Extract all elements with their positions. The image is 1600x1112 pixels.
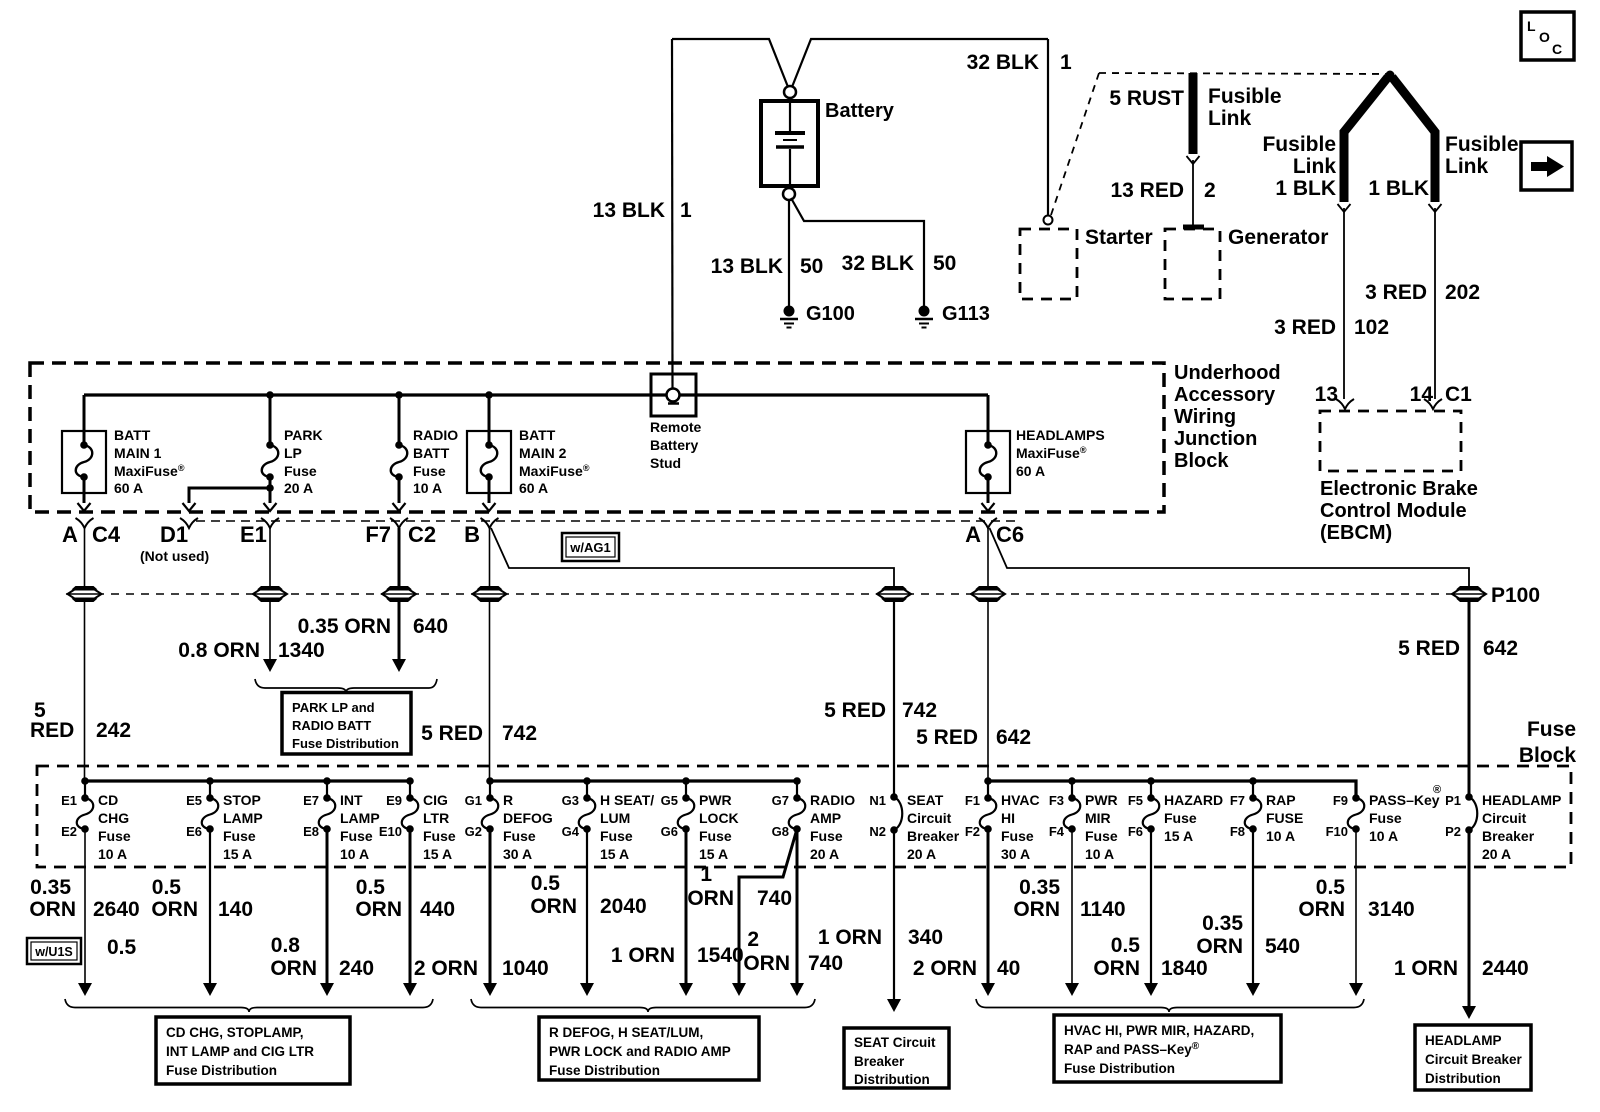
svg-text:5 RED: 5 RED — [824, 699, 886, 722]
svg-text:60 A: 60 A — [1016, 463, 1045, 479]
svg-text:MAIN 1: MAIN 1 — [114, 445, 162, 461]
wire 3 RED 102 — [1343, 208, 1345, 399]
svg-text:E9: E9 — [386, 793, 402, 808]
svg-text:RAP and PASS–Key®: RAP and PASS–Key® — [1064, 1041, 1200, 1057]
fuse PWR 15 A — [661, 781, 739, 862]
svg-text:0.5: 0.5 — [1111, 934, 1141, 957]
node bus 2 junction x=490 — [486, 777, 494, 785]
svg-text:Fuse: Fuse — [600, 828, 633, 844]
svg-text:CD CHG, STOPLAMP,: CD CHG, STOPLAMP, — [166, 1025, 304, 1040]
svg-text:20 A: 20 A — [1482, 846, 1511, 862]
node bus 1 junction x=327 — [323, 777, 331, 785]
EBCM box (dashed) — [1320, 411, 1461, 471]
svg-text:Fuse Distribution: Fuse Distribution — [549, 1063, 660, 1078]
svg-text:2: 2 — [747, 928, 759, 951]
svg-text:Link: Link — [1445, 155, 1488, 178]
svg-text:N1: N1 — [869, 793, 886, 808]
underhood accessory wiring junction block box (dashed) — [30, 363, 1164, 512]
fuse H SEAT/ 15 A — [562, 781, 655, 862]
node bus 3 junction x=1151 — [1147, 777, 1155, 785]
box PARK LP and RADIO BATT Fuse Distribution — [282, 693, 411, 755]
wire bus 1 (CD CHG..CIG LTR) — [85, 779, 410, 782]
fuse RADIO BATT 10A — [398, 395, 401, 445]
svg-text:CD: CD — [98, 792, 118, 808]
svg-text:60 A: 60 A — [519, 480, 548, 496]
svg-text:2 ORN: 2 ORN — [414, 957, 478, 980]
svg-text:0.5: 0.5 — [356, 876, 386, 899]
tag w/U1S — [27, 938, 81, 964]
svg-text:740: 740 — [757, 887, 792, 910]
grommet connector at x=399 — [386, 586, 412, 590]
svg-text:Circuit: Circuit — [1482, 810, 1527, 826]
svg-text:PASS–Key: PASS–Key — [1369, 792, 1440, 808]
box SEAT Circuit Breaker Distribution — [844, 1028, 949, 1088]
wire SEAT breaker output — [893, 830, 895, 1000]
svg-text:20 A: 20 A — [907, 846, 936, 862]
battery B1 — [761, 86, 818, 200]
svg-text:Breaker: Breaker — [854, 1054, 905, 1069]
svg-text:Fuse: Fuse — [98, 828, 131, 844]
svg-text:Fusible: Fusible — [1262, 133, 1336, 156]
svg-text:2640: 2640 — [93, 898, 140, 921]
fusible link 1 BLK right (to EBCM pin 14) — [1392, 77, 1435, 202]
ground G113 — [915, 306, 933, 328]
svg-text:5 RED: 5 RED — [916, 726, 978, 749]
svg-text:(EBCM): (EBCM) — [1320, 522, 1392, 544]
node junction PARK LP tap — [266, 391, 274, 399]
svg-text:1 BLK: 1 BLK — [1368, 177, 1429, 200]
wire B down (5 RED 742) — [489, 528, 491, 588]
wire fuse output x=1151 — [1150, 829, 1152, 985]
fuse CIG 15 A — [379, 781, 456, 862]
svg-text:HI: HI — [1001, 810, 1015, 826]
svg-text:E1: E1 — [240, 522, 267, 547]
node junction BATT MAIN 2 tap — [485, 391, 493, 399]
svg-text:740: 740 — [808, 952, 843, 975]
svg-text:ORN: ORN — [270, 957, 317, 980]
wire fuse output x=327 — [326, 829, 329, 985]
fuse HEADLAMPS MaxiFuse 60A — [987, 395, 990, 445]
svg-text:G7: G7 — [772, 793, 789, 808]
svg-text:F7: F7 — [365, 522, 391, 547]
svg-text:1: 1 — [1060, 51, 1072, 74]
svg-text:F9: F9 — [1333, 793, 1348, 808]
svg-text:C4: C4 — [92, 522, 121, 547]
svg-text:HEADLAMP: HEADLAMP — [1482, 792, 1561, 808]
wire E1 down (0.8 ORN 1340) — [269, 528, 271, 588]
svg-text:F5: F5 — [1128, 793, 1143, 808]
svg-text:PWR LOCK and RADIO AMP: PWR LOCK and RADIO AMP — [549, 1044, 731, 1059]
svg-text:E5: E5 — [186, 793, 202, 808]
svg-text:F10: F10 — [1326, 824, 1348, 839]
svg-text:Link: Link — [1208, 107, 1251, 130]
svg-text:E2: E2 — [61, 824, 77, 839]
svg-text:FUSE: FUSE — [1266, 810, 1303, 826]
svg-text:Fuse: Fuse — [340, 828, 373, 844]
svg-text:Fuse: Fuse — [423, 828, 456, 844]
svg-text:LAMP: LAMP — [340, 810, 380, 826]
fusible link 1 BLK left (to EBCM pin 13) — [1344, 77, 1388, 202]
svg-text:ORN: ORN — [29, 898, 76, 921]
connector B — [481, 518, 499, 528]
wire fuse output x=210 — [209, 829, 211, 985]
wire dashed rail to generator/EBCM feed — [1099, 73, 1390, 74]
svg-text:140: 140 — [218, 898, 253, 921]
svg-text:Starter: Starter — [1085, 226, 1153, 249]
grommet connector at x=84.5 — [72, 586, 98, 590]
svg-text:F7: F7 — [1230, 793, 1245, 808]
svg-text:Distribution: Distribution — [1425, 1071, 1501, 1086]
svg-text:MaxiFuse®: MaxiFuse® — [519, 463, 590, 479]
svg-text:RED: RED — [30, 719, 74, 742]
wire A/C6 branch to HEADLAMP circuit breaker — [990, 528, 1470, 588]
svg-text:1 ORN: 1 ORN — [818, 926, 882, 949]
svg-text:HEADLAMPS: HEADLAMPS — [1016, 427, 1105, 443]
svg-text:R: R — [503, 792, 513, 808]
svg-text:1840: 1840 — [1161, 957, 1208, 980]
svg-text:5 RED: 5 RED — [421, 722, 483, 745]
svg-text:30 A: 30 A — [503, 846, 532, 862]
svg-text:Breaker: Breaker — [1482, 828, 1535, 844]
svg-text:LAMP: LAMP — [223, 810, 263, 826]
svg-text:Fuse: Fuse — [1369, 810, 1402, 826]
svg-text:RAP: RAP — [1266, 792, 1296, 808]
wire 32 BLK 50 to G113 — [791, 198, 924, 306]
svg-text:E6: E6 — [186, 824, 202, 839]
svg-text:DEFOG: DEFOG — [503, 810, 553, 826]
wire A/C4 down (5 RED 242) — [84, 528, 86, 588]
svg-text:O: O — [1539, 29, 1550, 45]
svg-text:F6: F6 — [1128, 824, 1143, 839]
box HEADLAMP Circuit Breaker Distribution — [1415, 1025, 1531, 1090]
svg-text:32 BLK: 32 BLK — [842, 252, 914, 275]
svg-text:w/AG1: w/AG1 — [569, 540, 610, 555]
svg-text:MaxiFuse®: MaxiFuse® — [114, 463, 185, 479]
svg-text:G100: G100 — [806, 303, 855, 325]
wire PARK LP to D1 — [189, 488, 270, 503]
svg-text:B: B — [464, 522, 480, 547]
svg-text:Fuse: Fuse — [699, 828, 732, 844]
grommet connector at x=270 — [257, 586, 283, 590]
svg-text:3 RED: 3 RED — [1274, 316, 1336, 339]
svg-text:Accessory: Accessory — [1174, 384, 1276, 406]
svg-text:0.5: 0.5 — [1316, 876, 1346, 899]
svg-text:Underhood: Underhood — [1174, 362, 1281, 384]
connector F7/C2 — [390, 518, 408, 528]
wire top feed from battery positive — [672, 39, 1048, 87]
svg-text:10 A: 10 A — [1085, 846, 1114, 862]
svg-text:Fuse: Fuse — [223, 828, 256, 844]
svg-text:Battery: Battery — [650, 437, 698, 453]
svg-text:20 A: 20 A — [284, 480, 313, 496]
svg-text:E8: E8 — [303, 824, 319, 839]
svg-text:13 RED: 13 RED — [1110, 179, 1184, 202]
svg-text:RADIO BATT: RADIO BATT — [292, 718, 371, 733]
wire fuse output x=988 — [987, 829, 990, 985]
svg-text:(Not used): (Not used) — [140, 548, 209, 564]
svg-text:202: 202 — [1445, 281, 1480, 304]
svg-text:HVAC: HVAC — [1001, 792, 1040, 808]
svg-text:Link: Link — [1293, 155, 1336, 178]
connector E1 — [261, 518, 279, 528]
box R DEFOG H SEAT/LUM PWR LOCK RADIO AMP Fuse Distribution — [539, 1017, 759, 1080]
svg-text:LTR: LTR — [423, 810, 449, 826]
node junction at fusible link peak — [1386, 71, 1395, 80]
node junction RADIO BATT tap — [395, 391, 403, 399]
svg-text:Wiring: Wiring — [1174, 406, 1236, 428]
svg-text:BATT: BATT — [519, 427, 556, 443]
svg-text:P2: P2 — [1445, 824, 1461, 839]
svg-text:ORN: ORN — [743, 952, 790, 975]
node bus 1 junction x=410 — [406, 777, 414, 785]
svg-text:F1: F1 — [965, 793, 980, 808]
svg-text:G113: G113 — [942, 303, 990, 325]
svg-text:50: 50 — [933, 252, 956, 275]
connector D1 (not used) — [180, 518, 198, 528]
svg-text:ORN: ORN — [1093, 957, 1140, 980]
node bus 2 junction x=587 — [583, 777, 591, 785]
svg-text:3140: 3140 — [1368, 898, 1415, 921]
wire fuse output x=1356 — [1355, 829, 1357, 985]
svg-text:ORN: ORN — [530, 895, 577, 918]
svg-text:0.8 ORN: 0.8 ORN — [178, 639, 260, 662]
svg-text:10 A: 10 A — [1369, 828, 1398, 844]
wire fuse output x=686 — [685, 829, 688, 985]
wire bus 2 (R DEFOG..RADIO AMP) — [490, 779, 797, 782]
svg-text:0.5: 0.5 — [107, 936, 137, 959]
svg-text:Fuse Distribution: Fuse Distribution — [292, 736, 399, 751]
node bus 2 junction x=686 — [682, 777, 690, 785]
svg-text:Control Module: Control Module — [1320, 500, 1467, 522]
svg-text:INT LAMP and CIG LTR: INT LAMP and CIG LTR — [166, 1044, 314, 1059]
svg-text:BATT: BATT — [413, 445, 450, 461]
svg-text:A: A — [62, 522, 78, 547]
svg-text:E7: E7 — [303, 793, 319, 808]
wire RADIO AMP branch output (1 ORN 740) — [739, 829, 797, 985]
svg-text:0.35: 0.35 — [1019, 876, 1060, 899]
svg-text:Fuse: Fuse — [503, 828, 536, 844]
node bus 3 junction x=1072 — [1068, 777, 1076, 785]
svg-text:Fuse Distribution: Fuse Distribution — [1064, 1061, 1175, 1076]
wire 13 RED 2 to generator — [1187, 156, 1200, 164]
svg-text:2040: 2040 — [600, 895, 647, 918]
fuse PASS-Key 10 A — [1326, 781, 1442, 844]
fuse block box (dashed) — [37, 766, 1571, 867]
svg-text:Fuse: Fuse — [413, 463, 446, 479]
svg-text:540: 540 — [1265, 935, 1300, 958]
svg-text:1540: 1540 — [697, 944, 744, 967]
brace R DEFOG group — [471, 999, 815, 1012]
connector face dashed line — [196, 520, 1015, 522]
grommet connector at x=1469 — [1456, 586, 1482, 590]
svg-text:HEADLAMP: HEADLAMP — [1425, 1033, 1502, 1048]
fuse PWR 10 A — [1049, 781, 1118, 862]
svg-text:10 A: 10 A — [98, 846, 127, 862]
svg-text:Breaker: Breaker — [907, 828, 960, 844]
svg-text:H SEAT/: H SEAT/ — [600, 792, 654, 808]
wire fuse output x=85 — [84, 829, 86, 985]
circuit breaker SEAT 20 A — [869, 792, 959, 862]
wire 13 BLK 50 to G100 — [788, 200, 790, 306]
svg-text:G3: G3 — [562, 793, 579, 808]
svg-text:0.8: 0.8 — [271, 934, 301, 957]
svg-text:0.35: 0.35 — [1202, 912, 1243, 935]
svg-text:P1: P1 — [1445, 793, 1461, 808]
svg-text:LP: LP — [284, 445, 302, 461]
svg-text:HVAC HI, PWR MIR, HAZARD,: HVAC HI, PWR MIR, HAZARD, — [1064, 1023, 1254, 1038]
svg-text:642: 642 — [1483, 637, 1518, 660]
svg-text:w/U1S: w/U1S — [34, 945, 73, 959]
node bus 2 junction x=797 — [793, 777, 801, 785]
svg-text:Fuse: Fuse — [810, 828, 843, 844]
svg-text:Fuse: Fuse — [284, 463, 317, 479]
svg-text:Block: Block — [1519, 744, 1577, 767]
svg-text:2440: 2440 — [1482, 957, 1529, 980]
svg-text:642: 642 — [996, 726, 1031, 749]
connector A/C6 — [979, 518, 997, 528]
svg-text:SEAT: SEAT — [907, 792, 944, 808]
svg-text:10 A: 10 A — [413, 480, 442, 496]
wire F7 down (0.35 ORN 640) — [398, 528, 401, 588]
svg-text:30 A: 30 A — [1001, 846, 1030, 862]
node starter terminal circle — [1044, 216, 1053, 225]
svg-text:ORN: ORN — [687, 887, 734, 910]
svg-text:13 BLK: 13 BLK — [593, 199, 665, 222]
svg-text:13: 13 — [1315, 383, 1338, 406]
svg-text:242: 242 — [96, 719, 131, 742]
fuse PARK LP 20A — [269, 395, 272, 445]
svg-text:G1: G1 — [465, 793, 482, 808]
svg-text:32 BLK: 32 BLK — [967, 51, 1039, 74]
svg-text:CIG: CIG — [423, 792, 448, 808]
svg-text:1: 1 — [700, 863, 712, 886]
svg-text:MAIN 2: MAIN 2 — [519, 445, 567, 461]
svg-text:HAZARD: HAZARD — [1164, 792, 1223, 808]
svg-text:Block: Block — [1174, 450, 1229, 472]
wire fuse output x=490 — [489, 829, 492, 985]
svg-text:G6: G6 — [661, 824, 678, 839]
wire fuse output x=797 — [796, 829, 799, 985]
node bus 1 junction x=85 — [81, 777, 89, 785]
fuse RAP 10 A — [1230, 781, 1304, 844]
fuse BATT MAIN 2 MaxiFuse 60A — [488, 395, 491, 445]
wire 32 BLK 1 to starter — [1047, 39, 1049, 215]
svg-text:Fuse: Fuse — [1164, 810, 1197, 826]
svg-text:ORN: ORN — [151, 898, 198, 921]
svg-text:ORN: ORN — [1013, 898, 1060, 921]
svg-text:F4: F4 — [1049, 824, 1065, 839]
svg-text:RADIO: RADIO — [810, 792, 855, 808]
svg-text:102: 102 — [1354, 316, 1389, 339]
svg-text:Electronic Brake: Electronic Brake — [1320, 478, 1478, 500]
svg-text:G5: G5 — [661, 793, 678, 808]
svg-text:Circuit Breaker: Circuit Breaker — [1425, 1052, 1523, 1067]
wire bus 3 (HVAC HI..PASS-Key) — [988, 781, 1356, 798]
svg-text:F8: F8 — [1230, 824, 1245, 839]
svg-text:240: 240 — [339, 957, 374, 980]
svg-text:Stud: Stud — [650, 455, 681, 471]
wire fuse output x=587 — [586, 829, 588, 985]
svg-text:Remote: Remote — [650, 419, 702, 435]
svg-text:Fusible: Fusible — [1208, 85, 1282, 108]
fuse R 30 A — [465, 781, 553, 862]
svg-text:RADIO: RADIO — [413, 427, 458, 443]
svg-text:MIR: MIR — [1085, 810, 1111, 826]
svg-text:742: 742 — [902, 699, 937, 722]
wire fuse output x=1253 — [1252, 829, 1254, 985]
wire 3 RED 202 — [1434, 208, 1436, 399]
svg-text:PARK: PARK — [284, 427, 323, 443]
wire B branch to SEAT circuit breaker — [491, 528, 894, 588]
fuse CD 10 A — [61, 781, 131, 862]
svg-text:1340: 1340 — [278, 639, 325, 662]
svg-text:G2: G2 — [465, 824, 482, 839]
svg-text:R DEFOG, H SEAT/LUM,: R DEFOG, H SEAT/LUM, — [549, 1025, 703, 1040]
connector A/C4 — [76, 518, 94, 528]
wire dashed branch starter to fusible link rail — [1051, 73, 1099, 215]
fuse INT 10 A — [303, 781, 380, 862]
svg-text:Fuse: Fuse — [1085, 828, 1118, 844]
svg-text:15 A: 15 A — [600, 846, 629, 862]
svg-text:1 BLK: 1 BLK — [1275, 177, 1336, 200]
fuse HVAC 30 A — [965, 781, 1040, 862]
svg-text:N2: N2 — [869, 824, 886, 839]
svg-text:C1: C1 — [1445, 383, 1472, 406]
ground G100 — [780, 306, 798, 328]
svg-text:PARK LP and: PARK LP and — [292, 700, 375, 715]
svg-text:742: 742 — [502, 722, 537, 745]
svg-text:D1: D1 — [160, 522, 188, 547]
svg-text:Distribution: Distribution — [854, 1072, 930, 1087]
brace PARK LP / RADIO BATT — [255, 679, 437, 693]
svg-text:15 A: 15 A — [1164, 828, 1193, 844]
svg-text:10 A: 10 A — [1266, 828, 1295, 844]
svg-text:1: 1 — [680, 199, 692, 222]
svg-text:G8: G8 — [772, 824, 789, 839]
svg-text:Circuit: Circuit — [907, 810, 952, 826]
svg-text:13 BLK: 13 BLK — [711, 255, 783, 278]
svg-text:40: 40 — [997, 957, 1020, 980]
svg-text:C: C — [1552, 41, 1562, 57]
svg-text:Fuse Distribution: Fuse Distribution — [166, 1063, 277, 1078]
svg-text:0.5: 0.5 — [152, 876, 182, 899]
svg-text:3 RED: 3 RED — [1365, 281, 1427, 304]
node bus 3 junction x=1253 — [1249, 777, 1257, 785]
fuse STOP 15 A — [186, 781, 263, 862]
svg-text:340: 340 — [908, 926, 943, 949]
svg-text:15 A: 15 A — [699, 846, 728, 862]
fuse RADIO 20 A — [772, 781, 856, 862]
svg-text:P100: P100 — [1491, 584, 1540, 607]
svg-text:INT: INT — [340, 792, 363, 808]
remote battery stud — [651, 374, 696, 416]
starter box (dashed) — [1020, 229, 1077, 299]
brace CD CHG group — [65, 999, 433, 1012]
circuit breaker HEADLAMP 20 A — [1445, 792, 1561, 862]
svg-text:Generator: Generator — [1228, 226, 1328, 249]
svg-text:LUM: LUM — [600, 810, 630, 826]
brace HVAC group — [976, 999, 1364, 1012]
svg-text:F3: F3 — [1049, 793, 1064, 808]
svg-text:C6: C6 — [996, 522, 1024, 547]
grommet connector at x=489.5 — [477, 586, 503, 590]
svg-text:PWR: PWR — [699, 792, 732, 808]
svg-text:PWR: PWR — [1085, 792, 1118, 808]
fuse HAZARD 15 A — [1128, 781, 1223, 844]
svg-text:Fusible: Fusible — [1445, 133, 1519, 156]
svg-text:CHG: CHG — [98, 810, 129, 826]
svg-text:STOP: STOP — [223, 792, 261, 808]
